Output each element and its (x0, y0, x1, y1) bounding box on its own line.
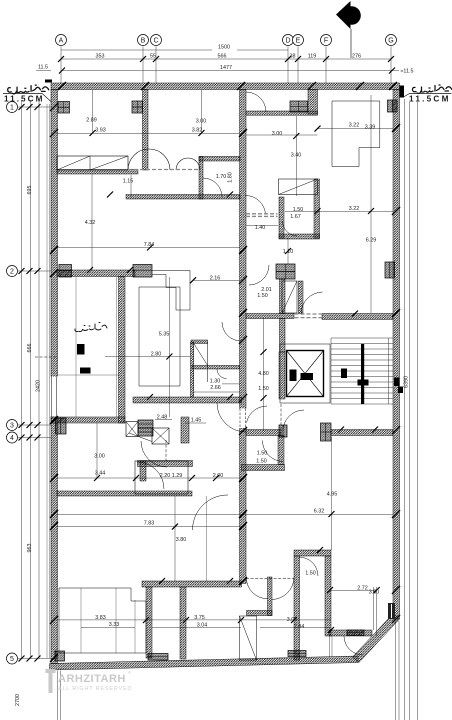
svg-text:7.84: 7.84 (144, 242, 155, 248)
svg-text:C: C (153, 37, 158, 44)
svg-text:7.83: 7.83 (144, 521, 155, 527)
svg-text:1500: 1500 (218, 45, 230, 51)
svg-text:666: 666 (27, 344, 33, 353)
svg-text:2.80: 2.80 (151, 352, 162, 358)
svg-text:4.80: 4.80 (258, 371, 269, 377)
svg-text:3.00: 3.00 (196, 119, 207, 125)
svg-text:1.50: 1.50 (257, 450, 268, 456)
svg-text:≈11.5: ≈11.5 (400, 69, 413, 75)
svg-text:11.5CM: 11.5CM (409, 95, 450, 104)
svg-text:4: 4 (10, 435, 14, 442)
svg-text:3.80: 3.80 (176, 537, 187, 543)
svg-text:F: F (324, 37, 328, 44)
svg-text:2.00: 2.00 (213, 473, 224, 479)
svg-text:3.39: 3.39 (365, 125, 376, 131)
svg-text:3.83: 3.83 (95, 615, 106, 621)
svg-text:3.05: 3.05 (287, 617, 298, 623)
svg-text:1.70: 1.70 (216, 174, 227, 180)
svg-text:566: 566 (218, 54, 227, 60)
svg-text:4.32: 4.32 (85, 220, 96, 226)
svg-text:1.45: 1.45 (191, 418, 202, 424)
svg-text:®: ® (128, 670, 131, 675)
svg-text:119: 119 (308, 54, 317, 60)
svg-text:1.50: 1.50 (257, 293, 268, 299)
svg-text:A: A (59, 37, 64, 44)
svg-text:1.50: 1.50 (256, 458, 267, 464)
svg-text:11.5: 11.5 (38, 65, 48, 71)
svg-text:1.15: 1.15 (123, 179, 134, 185)
svg-text:3.40: 3.40 (291, 153, 302, 159)
svg-text:B: B (141, 37, 146, 44)
svg-text:2700: 2700 (15, 694, 21, 706)
svg-text:1.50: 1.50 (305, 570, 316, 576)
svg-text:2.16: 2.16 (210, 275, 221, 281)
svg-text:2.72: 2.72 (357, 586, 368, 592)
svg-text:G: G (388, 37, 393, 44)
svg-text:ARHZITARH: ARHZITARH (58, 673, 126, 685)
svg-text:1477: 1477 (220, 65, 232, 71)
svg-text:5.35: 5.35 (159, 332, 170, 338)
svg-text:2.48: 2.48 (157, 414, 168, 420)
svg-text:3.33: 3.33 (109, 622, 120, 628)
svg-text:3.00: 3.00 (272, 131, 283, 137)
svg-text:1.50: 1.50 (258, 386, 269, 392)
svg-text:2.89: 2.89 (86, 117, 97, 123)
svg-text:276: 276 (352, 54, 361, 60)
svg-text:3.00: 3.00 (94, 454, 105, 460)
svg-text:2.66: 2.66 (210, 385, 221, 391)
svg-text:3.04: 3.04 (197, 623, 208, 629)
svg-text:2.84: 2.84 (294, 624, 305, 630)
svg-text:E: E (296, 37, 301, 44)
svg-text:1.50: 1.50 (293, 207, 304, 213)
svg-text:3.82: 3.82 (192, 128, 203, 134)
svg-text:3.75: 3.75 (194, 615, 205, 621)
svg-text:2: 2 (10, 268, 14, 275)
svg-text:6.32: 6.32 (314, 508, 325, 514)
svg-text:1.80: 1.80 (228, 172, 234, 183)
svg-text:6390: 6390 (404, 376, 410, 388)
svg-text:3.22: 3.22 (349, 122, 360, 128)
svg-text:2420: 2420 (36, 380, 42, 392)
svg-text:1.10: 1.10 (283, 249, 294, 255)
svg-text:3.50: 3.50 (369, 590, 380, 596)
svg-text:4.95: 4.95 (327, 491, 338, 497)
svg-text:1.67: 1.67 (290, 214, 301, 220)
svg-text:1.40: 1.40 (255, 225, 266, 231)
svg-text:ALL RIGHT RESERVED: ALL RIGHT RESERVED (58, 686, 132, 692)
svg-text:55: 55 (150, 54, 156, 60)
svg-text:1.30: 1.30 (210, 379, 221, 385)
svg-text:11.5CM: 11.5CM (4, 95, 44, 104)
svg-text:3: 3 (10, 422, 14, 429)
svg-text:353: 353 (96, 54, 105, 60)
svg-text:5: 5 (10, 656, 14, 663)
svg-text:D: D (285, 37, 290, 44)
svg-text:3.93: 3.93 (95, 127, 106, 133)
svg-text:3.22: 3.22 (349, 206, 360, 212)
svg-text:963: 963 (27, 544, 33, 553)
svg-text:3.44: 3.44 (95, 470, 106, 476)
svg-text:695: 695 (27, 186, 33, 195)
svg-text:6.29: 6.29 (366, 238, 377, 244)
svg-text:38: 38 (290, 54, 296, 60)
svg-text:1: 1 (10, 104, 14, 111)
svg-text:2.20 1.29: 2.20 1.29 (160, 473, 182, 479)
